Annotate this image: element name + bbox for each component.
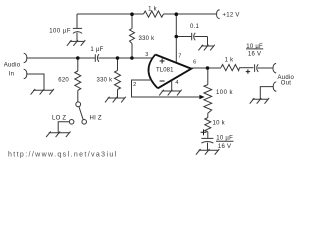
svg-text:1 k: 1 k <box>148 6 158 12</box>
svg-text:100 k: 100 k <box>216 90 233 96</box>
svg-text:10 k: 10 k <box>213 121 226 127</box>
svg-text:330 k: 330 k <box>139 36 156 42</box>
svg-text:In: In <box>9 72 15 78</box>
svg-text:Audio: Audio <box>4 62 21 68</box>
svg-text:HI Z: HI Z <box>90 116 102 122</box>
svg-text:7: 7 <box>178 54 181 60</box>
svg-text:6: 6 <box>193 60 196 66</box>
svg-text:0.1: 0.1 <box>190 24 200 30</box>
svg-text:16 V: 16 V <box>218 144 231 150</box>
svg-text:1 k: 1 k <box>225 58 235 64</box>
svg-text:620: 620 <box>58 78 69 84</box>
svg-text:16 V: 16 V <box>248 51 261 57</box>
svg-text:4: 4 <box>175 80 178 86</box>
svg-text:2: 2 <box>133 82 136 88</box>
svg-text:TL081: TL081 <box>156 68 174 74</box>
svg-text:+12 V: +12 V <box>223 12 240 18</box>
svg-text:Out: Out <box>281 81 292 87</box>
svg-text:LO Z: LO Z <box>52 115 66 121</box>
svg-text:330 k: 330 k <box>97 77 114 83</box>
svg-text:http://www.qsl.net/va3iul: http://www.qsl.net/va3iul <box>8 152 118 159</box>
svg-text:1 µF: 1 µF <box>90 47 103 53</box>
svg-text:100 µF: 100 µF <box>49 29 71 35</box>
svg-text:3: 3 <box>145 52 148 58</box>
